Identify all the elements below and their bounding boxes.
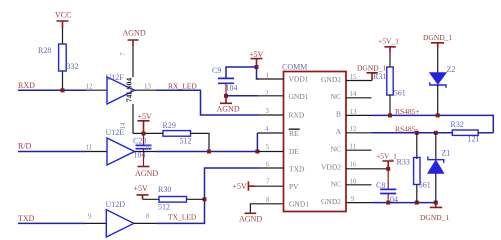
- svg-text:PV: PV: [289, 182, 299, 191]
- power DGND_1 (Z2): [423, 33, 452, 73]
- svg-text:VDD1: VDD1: [289, 75, 309, 84]
- svg-text:U12D: U12D: [106, 200, 126, 209]
- svg-text:RX_LED: RX_LED: [168, 81, 197, 90]
- svg-text:AGND: AGND: [217, 105, 240, 114]
- pin 10 stub: [346, 178, 372, 186]
- power AGND (C9): [217, 96, 240, 114]
- power DGND_1 (pin15): [357, 63, 386, 80]
- pin RE overline: [289, 128, 300, 130]
- IC left pin names: [289, 75, 310, 209]
- zener Z1: [428, 133, 450, 203]
- pin 4 stub: [265, 125, 269, 133]
- junction R33/DGND: [415, 201, 419, 205]
- svg-text:512: 512: [180, 137, 192, 146]
- svg-text:Z1: Z1: [442, 148, 451, 157]
- pin 8 stub: [266, 196, 270, 204]
- junction Z1/DGND: [434, 201, 438, 205]
- pin 9 stub GND2: [346, 195, 372, 203]
- wire pin7: [119, 46, 133, 77]
- wire GND1 pin2: [226, 95, 258, 97]
- svg-text:16: 16: [350, 160, 358, 168]
- zener Z2: [430, 65, 456, 115]
- svg-text:R31: R31: [373, 72, 386, 81]
- svg-text:Z2: Z2: [447, 65, 456, 74]
- resistor R31: [373, 67, 406, 115]
- svg-text:TXD: TXD: [18, 214, 35, 223]
- svg-text:332: 332: [67, 62, 79, 71]
- svg-text:GND1: GND1: [289, 92, 309, 101]
- svg-text:RE: RE: [289, 129, 299, 138]
- power AGND (pin8): [239, 213, 262, 223]
- wire RS485+: [372, 115, 494, 132]
- svg-text:2: 2: [265, 89, 269, 97]
- op-gate U12E inverter: [106, 128, 135, 165]
- pin 15 stub: [346, 73, 372, 81]
- op-gate U12F inverter: [106, 73, 135, 104]
- svg-text:R32: R32: [451, 120, 464, 129]
- svg-text:DE: DE: [289, 147, 299, 156]
- node RXD label: [18, 81, 35, 90]
- junction Z2/RS485+: [436, 113, 440, 117]
- pin 2 stub: [258, 89, 284, 97]
- junction C9/GND1: [224, 94, 228, 98]
- node RX_LED label: [168, 81, 197, 90]
- pin 13 stub: [135, 82, 157, 90]
- junction DE/RE: [255, 150, 259, 154]
- svg-text:TXD: TXD: [289, 164, 305, 173]
- junction R30/TX_LED: [203, 197, 207, 201]
- svg-text:8: 8: [146, 212, 150, 220]
- svg-text:5: 5: [266, 143, 270, 151]
- svg-text:+5V: +5V: [134, 184, 149, 193]
- pin 6 stub: [258, 160, 284, 168]
- power +5V (R30): [134, 184, 160, 199]
- svg-text:RXD: RXD: [289, 111, 305, 120]
- pin 14 stub: [346, 90, 372, 98]
- junction Z1/RS485-: [434, 131, 438, 135]
- pin 7 stub: [266, 178, 270, 186]
- junction +5V/R29: [142, 132, 146, 136]
- op-gate U12D inverter: [106, 200, 134, 237]
- junction C8/DGND: [386, 201, 390, 205]
- power DGND_1 (bottom): [420, 203, 449, 222]
- power +5V (VDD1/C9): [249, 50, 264, 67]
- pin 13 stub B: [346, 108, 372, 116]
- wire pin14 to R29: [133, 132, 163, 134]
- pin 11 stub: [86, 144, 108, 152]
- wire VDD1: [257, 67, 259, 79]
- junction R29/DE: [207, 150, 211, 154]
- svg-text:13: 13: [350, 108, 358, 116]
- junction +5V/C9/VDD1: [255, 65, 259, 69]
- resistor R29: [163, 121, 210, 152]
- node R/D label: [18, 142, 32, 151]
- svg-text:RXD: RXD: [18, 81, 35, 90]
- svg-text:GND1: GND1: [289, 200, 309, 209]
- svg-text:A: A: [336, 127, 342, 136]
- resistor R33: [397, 133, 431, 203]
- wire RS485-: [372, 132, 453, 134]
- IC U-COMM body: [282, 63, 346, 212]
- svg-text:+5V_1: +5V_1: [378, 36, 399, 45]
- wire DGND net bottom: [372, 202, 436, 204]
- svg-text:1: 1: [266, 72, 270, 80]
- svg-text:512: 512: [158, 202, 170, 211]
- wire pin14 of gate: [119, 104, 133, 133]
- pin 3 stub: [258, 107, 284, 115]
- power VCC: [55, 11, 71, 45]
- pin 12 stub A: [346, 125, 372, 133]
- pin 11 stub: [346, 143, 372, 151]
- capacitor C23: [133, 133, 152, 166]
- svg-text:AGND: AGND: [135, 169, 158, 178]
- node TXD label: [18, 214, 35, 223]
- svg-text:9: 9: [351, 195, 355, 203]
- wire RX_LED to pin3: [156, 90, 258, 115]
- svg-text:15: 15: [350, 73, 358, 81]
- pin 9 stub: [86, 212, 106, 223]
- svg-text:104: 104: [226, 84, 238, 93]
- pin 1 stub: [258, 72, 284, 80]
- svg-text:10: 10: [145, 144, 153, 152]
- svg-text:561: 561: [394, 88, 406, 97]
- svg-text:R28: R28: [38, 46, 51, 55]
- svg-text:DGND_1: DGND_1: [420, 213, 449, 222]
- svg-text:NC: NC: [331, 145, 341, 154]
- pin 8 stub: [134, 212, 156, 223]
- svg-text:561: 561: [419, 181, 431, 190]
- svg-text:B: B: [336, 110, 341, 119]
- node RS485- label: [395, 124, 418, 133]
- wire R/D: [18, 151, 86, 153]
- wire RXD: [18, 89, 86, 91]
- power +5V_1 (VDD2): [376, 151, 397, 168]
- pin 5 stub: [257, 143, 283, 151]
- svg-text:8: 8: [266, 196, 270, 204]
- svg-text:14: 14: [350, 90, 358, 98]
- svg-text:GND2: GND2: [321, 75, 341, 84]
- svg-text:COMM: COMM: [282, 63, 307, 72]
- wire TX_LED up to pin6: [156, 168, 258, 223]
- IC right pin names: [321, 75, 342, 206]
- pin 12 stub: [86, 82, 108, 90]
- svg-text:+5V: +5V: [249, 50, 264, 59]
- wire pin8 GND1 to AGND: [250, 204, 283, 213]
- power +5V (pin14/R29): [138, 112, 153, 133]
- svg-text:+5V: +5V: [233, 182, 248, 191]
- power +5V_1 (R31): [378, 36, 399, 67]
- junction R31/RS485+: [388, 113, 392, 117]
- svg-text:+5V: +5V: [138, 112, 153, 121]
- junction +5V_1/C8: [386, 167, 390, 171]
- svg-text:AGND: AGND: [239, 215, 262, 224]
- svg-text:+5V_1: +5V_1: [376, 151, 397, 160]
- svg-text:C9: C9: [212, 66, 221, 75]
- power +5V (pin7 PV) rotated: [233, 181, 284, 191]
- node TX_LED label: [168, 212, 197, 221]
- svg-text:6: 6: [266, 160, 270, 168]
- junction R33/RS485-: [415, 131, 419, 135]
- svg-text:11: 11: [350, 143, 357, 151]
- svg-text:10: 10: [350, 178, 358, 186]
- svg-text:R30: R30: [158, 185, 171, 194]
- svg-text:74LS04: 74LS04: [125, 78, 134, 102]
- wire TXD: [18, 222, 86, 224]
- svg-text:DGND_1: DGND_1: [423, 33, 452, 42]
- power AGND (gate pin 7): [123, 29, 146, 47]
- resistor R32: [451, 120, 494, 144]
- svg-text:VDD2: VDD2: [321, 162, 341, 171]
- resistor R30: [158, 185, 205, 211]
- svg-text:11: 11: [86, 144, 93, 152]
- resistor R28: [38, 44, 79, 89]
- svg-text:GND2: GND2: [321, 197, 341, 206]
- svg-text:7: 7: [266, 178, 270, 186]
- svg-text:12: 12: [86, 82, 94, 90]
- node RS485+ label: [395, 107, 420, 116]
- pin 10 stub: [135, 144, 157, 152]
- svg-text:DGND_1: DGND_1: [357, 63, 386, 72]
- wire RE tie: [257, 133, 283, 152]
- svg-text:R/D: R/D: [18, 142, 32, 151]
- svg-text:3: 3: [266, 107, 270, 115]
- svg-text:R33: R33: [397, 158, 410, 167]
- svg-text:NC: NC: [331, 180, 341, 189]
- svg-text:4: 4: [265, 125, 269, 133]
- svg-text:AGND: AGND: [123, 29, 146, 38]
- capacitor C8: [376, 169, 398, 204]
- capacitor C9: [212, 66, 257, 96]
- svg-text:7: 7: [119, 52, 127, 56]
- svg-text:NC: NC: [331, 92, 341, 101]
- svg-text:R29: R29: [163, 121, 176, 130]
- svg-text:TX_LED: TX_LED: [168, 212, 197, 221]
- junction RXD/R28: [61, 88, 65, 92]
- pin 16 stub VDD2: [346, 160, 388, 168]
- power AGND (C23): [135, 167, 158, 179]
- svg-text:121: 121: [468, 135, 480, 144]
- svg-text:VCC: VCC: [55, 11, 71, 20]
- wire DE net: [156, 151, 257, 153]
- svg-text:U12E: U12E: [106, 128, 125, 137]
- svg-text:13: 13: [144, 82, 152, 90]
- svg-text:9: 9: [88, 212, 92, 220]
- svg-text:12: 12: [350, 125, 358, 133]
